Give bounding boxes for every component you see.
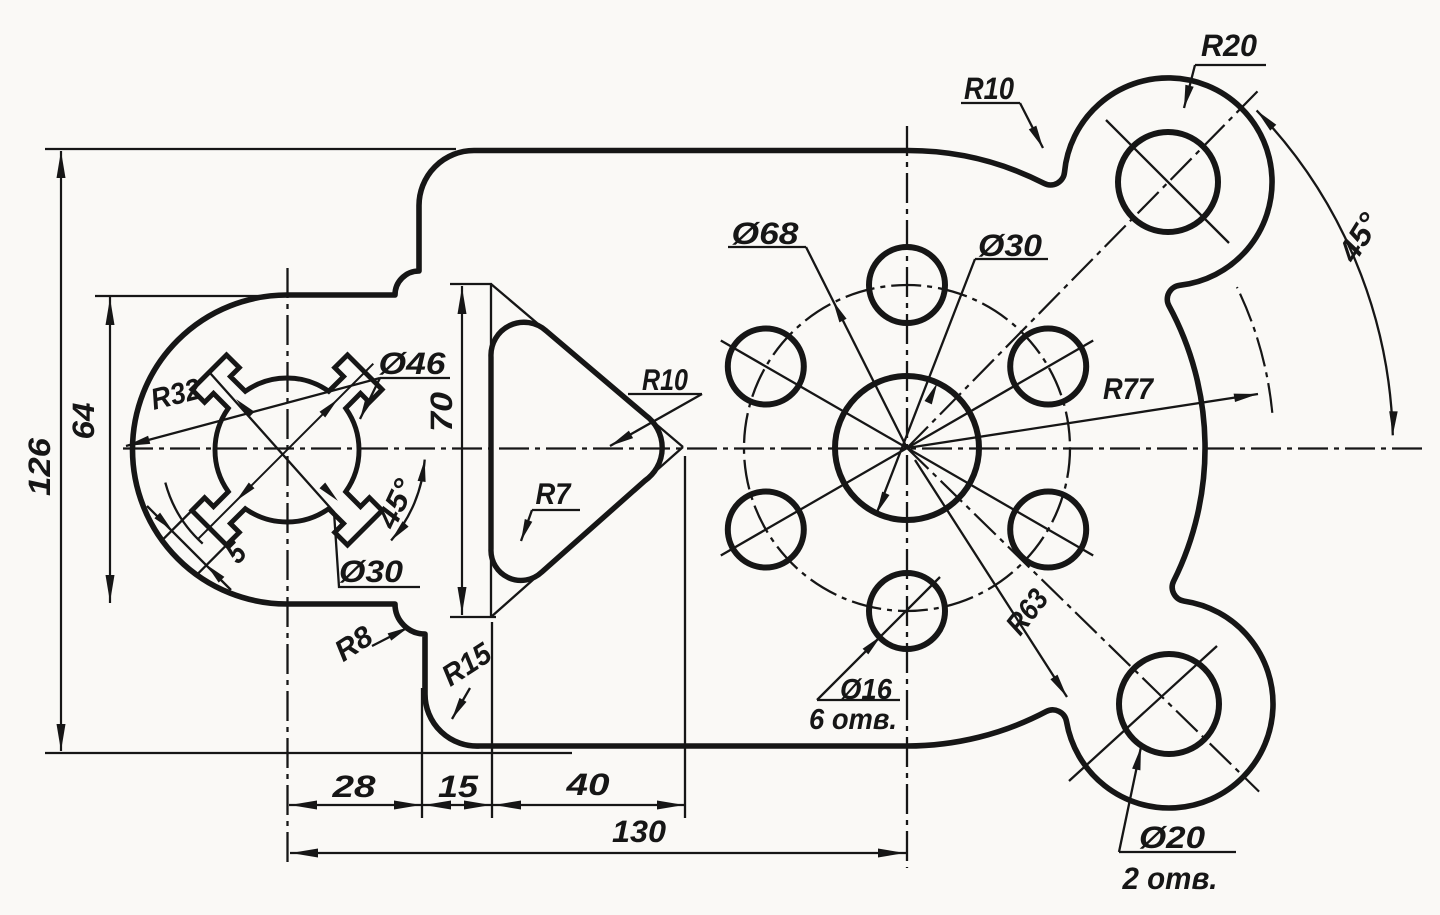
bolt hole O16 #1 xyxy=(1010,329,1086,405)
svg-text:40: 40 xyxy=(565,767,609,802)
dim 70 line xyxy=(461,286,463,615)
dim 126 extension bottom xyxy=(45,752,572,754)
svg-text:Ø46: Ø46 xyxy=(379,346,447,381)
svg-text:130: 130 xyxy=(612,814,666,849)
bolt hole O16 #5 xyxy=(869,573,945,649)
wire radial 45 deg to top boss xyxy=(907,91,1258,448)
svg-text:28: 28 xyxy=(331,769,376,804)
wire radial -44 deg to bottom boss xyxy=(907,448,1259,792)
dim ext x=685 xyxy=(684,456,686,818)
dim 45 deg arc hub xyxy=(391,460,425,541)
dim 126 extension top xyxy=(45,148,456,150)
dim 45 deg arc right xyxy=(1257,110,1393,435)
svg-text:R7: R7 xyxy=(536,478,572,511)
dim ext x=422 xyxy=(421,688,423,818)
svg-text:R77: R77 xyxy=(1103,373,1154,406)
hub diagonal 135-315 with leader to O30 label xyxy=(211,374,420,587)
triangle construction lines xyxy=(490,284,492,617)
boss1 hole O20 xyxy=(1118,132,1218,232)
dim 70 extension top xyxy=(450,283,492,285)
svg-text:70: 70 xyxy=(424,392,459,432)
dim 70 extension bottom xyxy=(450,616,496,618)
bolt hole O16 #3 xyxy=(728,329,804,405)
hub notched bore xyxy=(192,355,382,545)
wire vertical centerline hub xyxy=(286,268,288,868)
svg-text:R20: R20 xyxy=(1201,28,1257,63)
svg-text:R10: R10 xyxy=(642,364,688,397)
dim 5 slot width xyxy=(147,506,231,590)
wire diagonal 150-330 through bolt holes xyxy=(721,341,1093,556)
svg-text:6 отв.: 6 отв. xyxy=(809,704,897,736)
dim 5 ref arc xyxy=(165,483,202,544)
bolt hole O16 #4 xyxy=(728,492,804,568)
node bolt circle O68 xyxy=(744,285,1070,611)
bolt hole O16 #2 xyxy=(869,247,945,323)
svg-text:R10: R10 xyxy=(964,71,1014,106)
part outline xyxy=(133,78,1274,808)
svg-text:126: 126 xyxy=(22,437,57,496)
svg-text:Ø30: Ø30 xyxy=(339,554,403,589)
svg-text:64: 64 xyxy=(66,403,101,440)
svg-text:15: 15 xyxy=(438,769,479,804)
dim 64 extension top xyxy=(95,295,290,297)
dim 64 line xyxy=(109,297,111,603)
dim O30 hub arrows xyxy=(320,399,338,417)
svg-text:Ø16: Ø16 xyxy=(840,674,893,706)
wire boss1 cross centerline xyxy=(1106,120,1229,243)
dim ext x=492 xyxy=(491,622,493,818)
triangular cutout xyxy=(491,322,662,580)
svg-text:Ø20: Ø20 xyxy=(1139,820,1205,855)
node boss locus arc R63 xyxy=(1237,287,1272,413)
svg-text:Ø30: Ø30 xyxy=(978,228,1042,263)
dim R32 leader xyxy=(126,378,380,446)
svg-text:Ø68: Ø68 xyxy=(732,216,800,251)
dim 5 ext lines xyxy=(162,511,192,541)
hub diagonal 45-225 xyxy=(199,364,374,539)
wire boss2 cross centerline xyxy=(1069,646,1217,781)
wire diagonal 30-210 through bolt holes xyxy=(721,341,1093,556)
wire horizontal centerline xyxy=(123,447,1426,449)
dim 126 line xyxy=(60,151,62,751)
dim O46 arrow xyxy=(360,378,380,419)
svg-text:2 отв.: 2 отв. xyxy=(1122,861,1218,896)
center hole O30 xyxy=(835,376,979,520)
wire vertical centerline right part xyxy=(906,126,908,868)
boss2 hole O20 xyxy=(1119,654,1219,754)
bolt hole O16 #6 xyxy=(1010,492,1086,568)
dim 130 line xyxy=(290,852,906,854)
dim 28-15-40 line xyxy=(289,804,686,806)
